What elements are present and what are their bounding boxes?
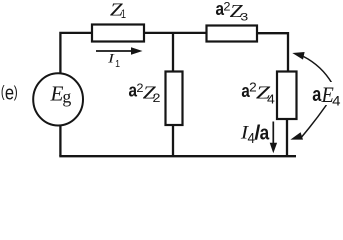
svg-text:): ) <box>14 83 18 101</box>
svg-text:4: 4 <box>267 92 275 107</box>
svg-text:g: g <box>62 87 71 107</box>
svg-text:a: a <box>260 121 270 144</box>
svg-text:a: a <box>312 84 322 106</box>
svg-text:E: E <box>50 81 64 105</box>
svg-text:1: 1 <box>115 59 120 70</box>
svg-text:2: 2 <box>152 93 160 105</box>
svg-text:I: I <box>107 51 115 66</box>
svg-text:e: e <box>5 82 14 104</box>
svg-text:3: 3 <box>240 11 248 23</box>
svg-text:4: 4 <box>332 93 341 109</box>
svg-text:1: 1 <box>121 8 126 21</box>
